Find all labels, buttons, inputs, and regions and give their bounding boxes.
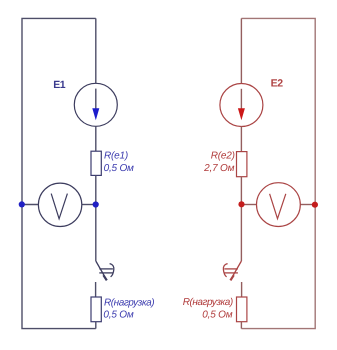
wire: red loop right/top/bottom: [241, 18, 315, 328]
label R(нагрузка) 0,5 Ом (red): [183, 297, 233, 320]
svg-text:0,5 Ом: 0,5 Ом: [202, 309, 232, 320]
label R(нагрузка) 0,5 Ом (blue): [103, 297, 154, 320]
wire: red chain, source to resistor: [240, 127, 242, 152]
wire: red chain bottom segment: [240, 322, 242, 329]
resistor R(e1): [91, 151, 101, 175]
wire: blue chain top segment: [95, 18, 97, 83]
wire: red voltmeter left lead: [241, 204, 256, 206]
wire: voltmeter left lead: [22, 204, 39, 206]
wire: blue chain bottom segment: [95, 322, 97, 329]
voltmeter V (red): [257, 183, 301, 227]
svg-text:0,5 Ом: 0,5 Ом: [103, 310, 133, 321]
node: red left junction: [238, 201, 244, 207]
voltmeter V (blue): [38, 183, 81, 226]
resistor R(нагрузка) blue: [91, 297, 101, 322]
current source E1: [74, 83, 117, 126]
svg-text:0,5 Ом: 0,5 Ом: [104, 163, 134, 174]
wire: red voltmeter right lead: [300, 204, 315, 206]
svg-text:R(e1): R(e1): [104, 151, 128, 162]
wire: voltmeter right lead: [82, 204, 96, 206]
svg-text:R(нагрузка): R(нагрузка): [183, 297, 233, 308]
wire: red chain, resistor to switch: [240, 177, 242, 261]
wire: blue chain, resistor to switch: [95, 175, 97, 261]
resistor R(нагрузка) red: [237, 297, 247, 322]
current source E2: [220, 84, 263, 127]
wire: red chain top segment: [240, 18, 242, 83]
wire: red chain, switch to load resistor: [241, 282, 243, 297]
switch S2 (red): [223, 261, 241, 280]
label R(e2) 2,7 Ом: [203, 151, 235, 175]
node: blue right junction: [93, 201, 99, 207]
wire: blue chain, switch to load resistor: [95, 282, 97, 297]
svg-text:E2: E2: [271, 78, 284, 90]
switch S1 (blue): [96, 261, 114, 280]
label R(e1) 0,5 Ом: [104, 151, 134, 174]
wire: blue loop left/top/bottom: [22, 18, 96, 328]
node: blue left junction: [19, 201, 25, 207]
svg-text:R(e2): R(e2): [211, 151, 235, 162]
svg-text:2,7 Ом: 2,7 Ом: [203, 163, 234, 174]
wire: blue chain, source to resistor: [95, 126, 97, 151]
svg-text:E1: E1: [53, 79, 66, 91]
svg-text:R(нагрузка): R(нагрузка): [104, 297, 154, 308]
resistor R(e2): [237, 152, 247, 177]
node: red right junction: [312, 202, 318, 208]
